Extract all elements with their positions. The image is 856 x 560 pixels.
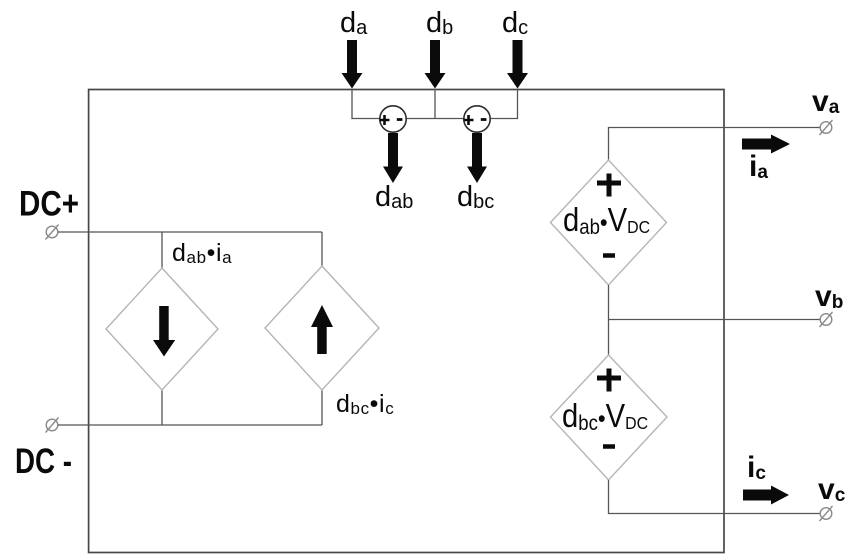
label dbc·VDC: [562, 397, 648, 435]
dependent voltage source dbc·VDC: [551, 355, 668, 480]
wire da to summer S1: [352, 89, 380, 119]
wire stub current source 2 bottom: [321, 390, 323, 425]
terminal va: [820, 120, 833, 135]
main converter box: [89, 90, 724, 553]
svg-text:DC+: DC+: [19, 185, 79, 224]
current arrow ic: [743, 486, 789, 505]
dependent voltage source dab·VDC: [551, 160, 667, 285]
summer S2: [464, 106, 491, 132]
wire db to summers: [406, 89, 464, 119]
wire DC+ rail: [58, 231, 322, 233]
input arrow db: [425, 40, 446, 89]
input arrow dc: [507, 40, 528, 89]
dependent current source dbc·ic: [265, 266, 379, 390]
svg-text:DC -: DC -: [15, 442, 72, 481]
input arrow da: [342, 40, 363, 89]
terminal vb: [820, 312, 833, 327]
output arrow dbc: [467, 133, 487, 183]
output arrow dab: [383, 133, 403, 183]
wire va from source top: [609, 128, 821, 161]
wire between voltage sources: [609, 285, 821, 355]
wire DC- rail: [58, 424, 322, 426]
summer S1: [380, 106, 407, 132]
wire vc from source bottom: [609, 480, 821, 514]
terminal DC+: [46, 225, 59, 240]
dependent current source dab·ia: [106, 268, 218, 390]
wire dc to summer S2: [490, 89, 517, 119]
wire stub current source 1 bottom: [161, 390, 163, 425]
label dab·VDC: [563, 201, 650, 239]
wire stub current source 2 top: [321, 232, 323, 266]
terminal DC-: [46, 418, 59, 433]
current arrow ia: [742, 135, 790, 154]
terminal vc: [820, 506, 833, 521]
wire stub current source 1 top: [161, 232, 163, 268]
